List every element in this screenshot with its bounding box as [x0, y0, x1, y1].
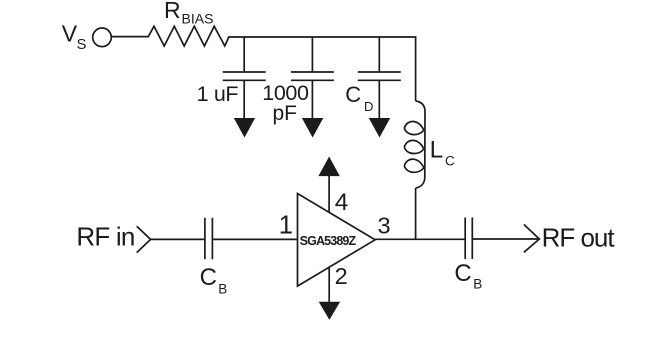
svg-text:1 uF: 1 uF [197, 82, 239, 106]
svg-text:D: D [364, 99, 373, 114]
svg-text:BIAS: BIAS [182, 11, 214, 27]
svg-text:RF out: RF out [542, 222, 616, 252]
svg-text:C: C [454, 260, 471, 287]
svg-text:L: L [430, 136, 444, 163]
svg-text:B: B [473, 276, 482, 291]
svg-text:3: 3 [378, 213, 391, 239]
svg-text:4: 4 [335, 189, 349, 216]
svg-text:C: C [200, 264, 217, 291]
svg-text:C: C [445, 154, 455, 169]
svg-text:pF: pF [273, 102, 298, 125]
svg-text:1: 1 [279, 212, 293, 240]
svg-text:B: B [218, 281, 227, 296]
svg-text:RF in: RF in [76, 222, 134, 252]
svg-text:C: C [345, 82, 361, 107]
svg-text:V: V [62, 21, 78, 47]
svg-text:SGA5389Z: SGA5389Z [300, 234, 357, 248]
svg-text:R: R [164, 0, 181, 23]
svg-text:2: 2 [335, 263, 348, 289]
svg-text:S: S [77, 36, 87, 53]
